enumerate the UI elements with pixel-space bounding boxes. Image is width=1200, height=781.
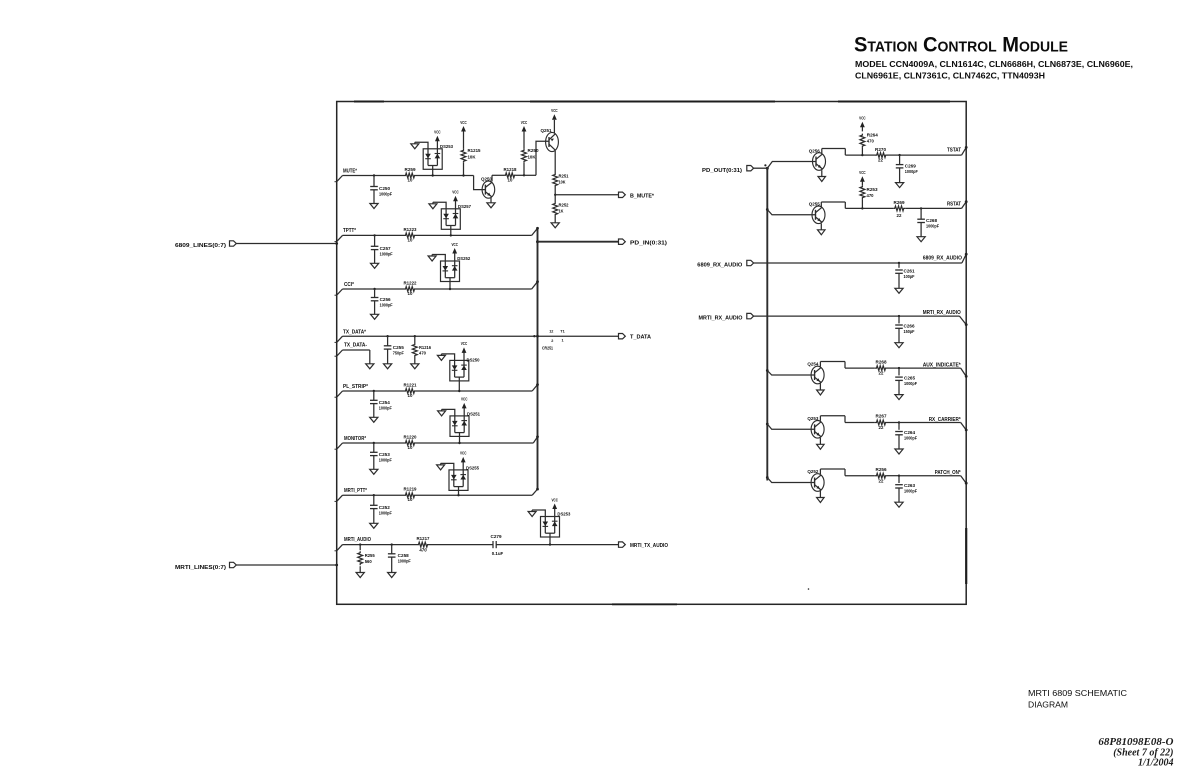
- svg-text:Q256: Q256: [809, 148, 821, 153]
- svg-text:C250: C250: [379, 186, 391, 191]
- resistor R1220: [404, 435, 418, 451]
- svg-text:C264: C264: [904, 430, 916, 435]
- resistor R1223: [404, 227, 418, 243]
- svg-text:R264: R264: [867, 133, 879, 138]
- ground Q250 emitter: [487, 198, 495, 208]
- capacitor C264: [895, 423, 917, 455]
- resistor R252: [553, 202, 569, 223]
- wire 6809_RX_AUDIO to edge: [898, 253, 968, 264]
- ground R252: [551, 223, 559, 228]
- wire Q256 collector: [822, 149, 863, 156]
- stray mark: [808, 588, 810, 590]
- svg-text:RSTAT: RSTAT: [947, 201, 961, 207]
- transistor Q250: [481, 176, 495, 198]
- wire MRTI_PTT* row: [343, 489, 538, 495]
- svg-text:560: 560: [365, 559, 373, 564]
- svg-text:2: 2: [551, 339, 553, 343]
- svg-text:MRTI_RX_AUDIO: MRTI_RX_AUDIO: [699, 315, 743, 321]
- svg-text:470: 470: [867, 193, 875, 198]
- svg-text:MODEL CCN4009A, CLN1614C, CLN6: MODEL CCN4009A, CLN1614C, CLN6686H, CLN6…: [855, 59, 1133, 69]
- resistor R1216: [411, 335, 432, 369]
- svg-text:MONITOR*: MONITOR*: [344, 436, 366, 442]
- svg-text:R1220: R1220: [404, 435, 418, 440]
- svg-text:VCC: VCC: [551, 108, 558, 113]
- transistor Q254: [807, 362, 824, 384]
- svg-text:VCC: VCC: [521, 120, 528, 125]
- svg-text:R1216: R1216: [419, 345, 432, 350]
- svg-text:Q253: Q253: [807, 416, 819, 421]
- transistor Q252: [807, 469, 824, 491]
- node MUTE*: [337, 169, 357, 182]
- wire PL_STRIP* row: [343, 385, 538, 391]
- svg-text:R267: R267: [876, 414, 888, 419]
- resistor R256: [875, 467, 887, 483]
- right border dark segment: [965, 528, 967, 584]
- svg-text:1000pF: 1000pF: [926, 224, 939, 229]
- svg-text:R253: R253: [867, 187, 879, 192]
- resistor R259: [404, 167, 416, 183]
- capacitor C254: [370, 390, 392, 423]
- svg-text:12: 12: [549, 330, 553, 334]
- svg-text:6809_RX_AUDIO: 6809_RX_AUDIO: [697, 262, 742, 268]
- vcc R264: [859, 116, 866, 132]
- svg-text:10K: 10K: [559, 180, 567, 185]
- svg-text:C253: C253: [379, 452, 391, 457]
- svg-text:DS253: DS253: [440, 144, 454, 149]
- bus 6809_LINES(0:7) entry: [175, 241, 338, 249]
- capacitor C253: [370, 442, 392, 475]
- svg-text:10: 10: [508, 177, 513, 182]
- svg-text:C269: C269: [905, 164, 917, 169]
- title STATION CONTROL MODULE: [854, 33, 1068, 57]
- node 6809_RX_AUDIO entry: [697, 260, 899, 268]
- svg-text:6809_RX_AUDIO: 6809_RX_AUDIO: [923, 255, 962, 261]
- label AUX_INDICATE*: [923, 362, 961, 368]
- svg-text:DS253: DS253: [557, 512, 571, 517]
- bus MRTI_LINES(0:7) entry: [175, 562, 338, 571]
- svg-text:PL_STRIP*: PL_STRIP*: [343, 384, 368, 390]
- wire TSTAT to edge: [887, 146, 968, 156]
- svg-text:C254: C254: [379, 400, 391, 405]
- document number 68P81098E08-O: [1098, 736, 1173, 748]
- wire AUX_INDICATE* to edge: [887, 367, 968, 378]
- label MRTI_RX_AUDIO right: [923, 310, 961, 316]
- left edge rip ticks: [335, 182, 337, 551]
- svg-text:1000pF: 1000pF: [904, 381, 917, 386]
- wire MRTI_AUDIO row: [343, 544, 619, 546]
- svg-text:1000pF: 1000pF: [379, 192, 392, 197]
- svg-text:R251: R251: [559, 174, 570, 179]
- svg-text:22: 22: [897, 213, 902, 218]
- wire Q253 collector: [820, 416, 875, 423]
- svg-text:Q254: Q254: [807, 362, 819, 367]
- svg-text:R1223: R1223: [404, 227, 418, 232]
- svg-text:C261: C261: [904, 268, 916, 273]
- svg-text:TX_DATA-: TX_DATA-: [344, 343, 367, 349]
- caption MRTI 6809 SCHEMATIC DIAGRAM: [1028, 689, 1127, 710]
- resistor R1222: [404, 281, 418, 297]
- wire TX_DATA- to ground: [343, 350, 370, 364]
- svg-text:MRTI_RX_AUDIO: MRTI_RX_AUDIO: [923, 310, 961, 316]
- svg-text:150pF: 150pF: [904, 329, 915, 334]
- svg-text:R268: R268: [876, 359, 888, 364]
- capacitor C258: [388, 543, 411, 577]
- resistor R264: [860, 133, 878, 157]
- capacitor C252: [370, 494, 392, 528]
- output arrow PD_IN(0:31): [619, 239, 668, 246]
- svg-text:10: 10: [408, 497, 413, 502]
- svg-text:470: 470: [867, 139, 875, 144]
- svg-text:PATCH_ON*: PATCH_ON*: [935, 470, 961, 476]
- svg-text:R1217: R1217: [417, 536, 431, 541]
- vcc R253: [859, 170, 866, 185]
- svg-text:MRTI 6809 SCHEMATIC: MRTI 6809 SCHEMATIC: [1028, 689, 1127, 698]
- capacitor C268: [917, 208, 939, 241]
- wire Q250 collector to Q251 base: [492, 141, 549, 181]
- svg-text:C258: C258: [398, 553, 410, 558]
- resistor R269: [893, 200, 905, 218]
- svg-text:1/1/2004: 1/1/2004: [1138, 758, 1174, 769]
- wire PATCH_ON* to edge: [887, 475, 968, 485]
- svg-text:100pF: 100pF: [904, 274, 915, 279]
- resistor R250 pull-up: [521, 120, 539, 176]
- resistor R1219: [404, 487, 418, 503]
- node MRTI_RX_AUDIO entry: [699, 313, 900, 321]
- svg-text:R270: R270: [875, 147, 887, 152]
- svg-text:T1: T1: [560, 330, 564, 334]
- svg-text:R255: R255: [365, 553, 376, 558]
- resistor R268: [875, 359, 887, 375]
- svg-text:10: 10: [408, 178, 413, 183]
- resistor R270: [875, 147, 887, 163]
- ground Q252 emitter: [817, 491, 825, 503]
- svg-text:1000pF: 1000pF: [904, 436, 917, 441]
- bottom border dark segment: [612, 603, 677, 605]
- resistor R253: [860, 185, 878, 209]
- svg-text:VCC: VCC: [461, 397, 468, 402]
- svg-text:DS250: DS250: [467, 358, 481, 363]
- capacitor C255: [384, 335, 405, 369]
- resistor R251: [553, 151, 569, 187]
- svg-text:R250: R250: [528, 148, 540, 153]
- svg-text:R256: R256: [876, 467, 888, 472]
- svg-text:1000pF: 1000pF: [380, 303, 393, 308]
- capacitor C266: [895, 316, 915, 348]
- sheet number: [1113, 748, 1173, 759]
- svg-text:22: 22: [879, 425, 884, 430]
- svg-text:Q252: Q252: [807, 469, 819, 474]
- label RSTAT: [947, 201, 961, 207]
- capacitor C250: [370, 174, 392, 208]
- svg-text:C263: C263: [904, 483, 916, 488]
- output arrow T_DATA: [619, 334, 652, 341]
- svg-text:C255: C255: [393, 345, 405, 350]
- svg-text:C268: C268: [926, 218, 938, 223]
- svg-text:10: 10: [408, 237, 413, 242]
- svg-text:R1215: R1215: [468, 148, 482, 153]
- ground Q255 emitter: [818, 224, 826, 235]
- date 1/1/2004: [1138, 758, 1174, 769]
- capacitor C269: [896, 155, 919, 188]
- wire TSTAT: [862, 154, 875, 156]
- svg-text:R259: R259: [405, 167, 417, 172]
- wire Q255 base rip: [766, 208, 816, 215]
- svg-text:C279: C279: [491, 534, 503, 539]
- svg-text:68P81098E08-O: 68P81098E08-O: [1098, 736, 1173, 748]
- svg-text:C265: C265: [904, 376, 916, 381]
- wire TPTT* row: [343, 228, 538, 235]
- svg-text:VCC: VCC: [460, 120, 467, 125]
- svg-text:CCI*: CCI*: [344, 282, 354, 288]
- svg-text:470: 470: [419, 350, 427, 355]
- svg-text:0.1uF: 0.1uF: [492, 551, 504, 556]
- svg-text:CLN6961E, CLN7361C, CLN7462C,: CLN6961E, CLN7361C, CLN7462C, TTN4093H: [855, 71, 1045, 81]
- svg-text:VCC: VCC: [451, 242, 458, 247]
- svg-text:MRTI_PTT*: MRTI_PTT*: [344, 488, 367, 494]
- resistor R255 to ground: [356, 543, 375, 577]
- svg-text:1000pF: 1000pF: [379, 510, 392, 515]
- wire PD_IN(0:31) output: [536, 240, 619, 243]
- node MRTI_PTT*: [337, 488, 367, 501]
- wire Q253 base rip: [766, 423, 815, 430]
- diode CR251 pin labels: [542, 330, 565, 351]
- ground TX_DATA-: [366, 364, 374, 369]
- svg-text:470: 470: [419, 548, 427, 553]
- svg-text:AUX_INDICATE*: AUX_INDICATE*: [923, 362, 961, 368]
- svg-text:1000pF: 1000pF: [379, 405, 392, 410]
- svg-text:1: 1: [562, 339, 564, 343]
- transistor Q256: [809, 148, 826, 170]
- wire Q252 base rip: [766, 476, 815, 482]
- svg-text:1K: 1K: [559, 209, 565, 214]
- diode package DS250: [437, 341, 480, 392]
- resistor R1217: [417, 536, 431, 553]
- svg-text:MRTI_TX_AUDIO: MRTI_TX_AUDIO: [630, 543, 668, 549]
- svg-text:VCC: VCC: [452, 190, 459, 195]
- svg-text:TSTAT: TSTAT: [947, 147, 961, 153]
- wire RX_CARRIER* to edge: [887, 421, 968, 431]
- top border dark segment 3: [838, 101, 950, 103]
- wire Q256 base rip: [764, 162, 816, 169]
- wire MRTI_RX_AUDIO to edge: [898, 315, 968, 326]
- svg-text:10K: 10K: [528, 155, 537, 160]
- module boundary box: [337, 102, 967, 605]
- svg-text:DS257: DS257: [458, 204, 472, 209]
- svg-text:R1218: R1218: [504, 167, 518, 172]
- svg-text:B_MUTE*: B_MUTE*: [630, 193, 655, 199]
- resistor R1221: [404, 383, 418, 399]
- capacitor C265: [895, 368, 917, 400]
- node MRTI_AUDIO: [337, 537, 371, 551]
- svg-text:R252: R252: [559, 203, 570, 208]
- svg-text:6809_LINES(0:7): 6809_LINES(0:7): [175, 243, 226, 249]
- wire MUTE* row: [343, 176, 486, 190]
- svg-text:VCC: VCC: [859, 170, 866, 175]
- svg-text:10: 10: [408, 445, 413, 450]
- diode package DS252: [428, 242, 471, 290]
- transistor Q251: [541, 128, 559, 152]
- diode package DS253: [411, 130, 454, 177]
- svg-text:10: 10: [408, 393, 413, 398]
- svg-text:Q251: Q251: [541, 128, 553, 133]
- svg-text:R1221: R1221: [404, 383, 418, 388]
- svg-text:22: 22: [879, 478, 884, 483]
- capacitor C263: [895, 476, 917, 508]
- svg-text:CR251: CR251: [542, 346, 554, 351]
- svg-text:22: 22: [879, 371, 884, 376]
- svg-text:DS255: DS255: [466, 466, 480, 471]
- top border dark segment 1: [354, 101, 384, 103]
- bus PD_OUT vertical: [766, 168, 768, 481]
- wire Q255 collector: [821, 202, 862, 208]
- diode package DS255: [437, 451, 480, 497]
- diode package DS251: [438, 397, 481, 444]
- resistor R1218: [504, 167, 518, 183]
- label PATCH_ON*: [935, 470, 961, 476]
- bus PD_IN vertical: [536, 227, 539, 491]
- svg-text:R1219: R1219: [404, 487, 418, 492]
- svg-text:C257: C257: [380, 246, 392, 251]
- svg-text:VCC: VCC: [434, 130, 441, 135]
- label TSTAT: [947, 147, 961, 153]
- subtitle model numbers line 1: [855, 59, 1133, 69]
- capacitor C261: [895, 263, 915, 293]
- diode package DS257: [429, 190, 472, 237]
- svg-text:MRTI_LINES(0:7): MRTI_LINES(0:7): [175, 565, 226, 571]
- svg-text:1000pF: 1000pF: [379, 457, 392, 462]
- svg-text:R1222: R1222: [404, 281, 418, 286]
- svg-text:TPTT*: TPTT*: [343, 228, 356, 234]
- svg-text:1000pF: 1000pF: [905, 169, 918, 174]
- subtitle model numbers line 2: [855, 71, 1045, 81]
- wire RSTAT: [862, 207, 893, 209]
- transistor Q253: [807, 416, 824, 438]
- resistor R1215 pull-up: [460, 120, 481, 177]
- node CCI*: [337, 282, 354, 295]
- output arrow MRTI_TX_AUDIO: [619, 542, 669, 549]
- wire Q254 collector: [820, 362, 875, 369]
- ground Q254 emitter: [817, 384, 825, 396]
- svg-text:R269: R269: [894, 200, 906, 205]
- svg-text:DS252: DS252: [457, 256, 471, 261]
- svg-text:DS251: DS251: [467, 412, 481, 417]
- wire MONITOR* row: [343, 437, 538, 443]
- svg-text:C266: C266: [904, 324, 916, 329]
- svg-text:T_DATA: T_DATA: [630, 335, 651, 341]
- wire Q252 collector: [820, 469, 875, 476]
- svg-text:1000pF: 1000pF: [904, 489, 917, 494]
- svg-text:10K: 10K: [468, 155, 477, 160]
- svg-text:MUTE*: MUTE*: [343, 169, 357, 175]
- svg-text:C252: C252: [379, 505, 391, 510]
- transistor Q255: [809, 201, 825, 223]
- top border dark segment 2: [530, 101, 775, 103]
- wire Q251 emitter to VCC: [551, 108, 558, 133]
- svg-text:MRTI_AUDIO: MRTI_AUDIO: [344, 537, 371, 543]
- node TPTT*: [337, 228, 356, 242]
- svg-text:1000pF: 1000pF: [398, 558, 411, 563]
- ground Q256 emitter: [818, 170, 826, 181]
- svg-text:VCC: VCC: [460, 451, 467, 456]
- capacitor C256: [371, 288, 393, 320]
- node B_MUTE* junction: [554, 187, 619, 202]
- wire RSTAT to edge: [905, 200, 967, 209]
- node TX_DATA*: [337, 330, 366, 343]
- bus PD_OUT(0:31) entry: [702, 166, 769, 174]
- svg-text:DIAGRAM: DIAGRAM: [1028, 701, 1068, 710]
- svg-text:PD_OUT(0:31): PD_OUT(0:31): [702, 168, 742, 174]
- svg-text:Q255: Q255: [809, 201, 821, 206]
- svg-text:1000pF: 1000pF: [380, 251, 393, 256]
- diode package DS253 bottom: [528, 497, 571, 546]
- label RX_CARRIER*: [929, 417, 961, 423]
- svg-text:10: 10: [408, 291, 413, 296]
- svg-text:750pF: 750pF: [393, 350, 404, 355]
- wire Q254 base rip: [766, 369, 815, 375]
- svg-text:PD_IN(0:31): PD_IN(0:31): [630, 240, 667, 246]
- svg-text:Station Control Module: Station Control Module: [854, 33, 1068, 57]
- svg-text:C256: C256: [380, 297, 392, 302]
- ground Q253 emitter: [817, 438, 825, 450]
- svg-text:22: 22: [878, 158, 883, 163]
- svg-text:VCC: VCC: [859, 116, 866, 121]
- wire TX_DATA* row: [343, 335, 619, 337]
- node PL_STRIP*: [337, 384, 368, 397]
- output arrow B_MUTE*: [619, 192, 655, 199]
- capacitor C279 series: [491, 534, 504, 556]
- svg-text:Q250: Q250: [481, 176, 493, 181]
- svg-text:RX_CARRIER*: RX_CARRIER*: [929, 417, 961, 423]
- node MONITOR*: [337, 436, 366, 449]
- resistor R267: [875, 414, 887, 430]
- label 6809_RX_AUDIO right: [923, 255, 962, 261]
- node TX_DATA-: [337, 343, 368, 357]
- svg-text:TX_DATA*: TX_DATA*: [343, 330, 366, 336]
- wire CCI* row: [343, 282, 538, 289]
- svg-text:VCC: VCC: [461, 341, 468, 346]
- svg-text:VCC: VCC: [551, 497, 558, 502]
- capacitor C257: [371, 234, 393, 268]
